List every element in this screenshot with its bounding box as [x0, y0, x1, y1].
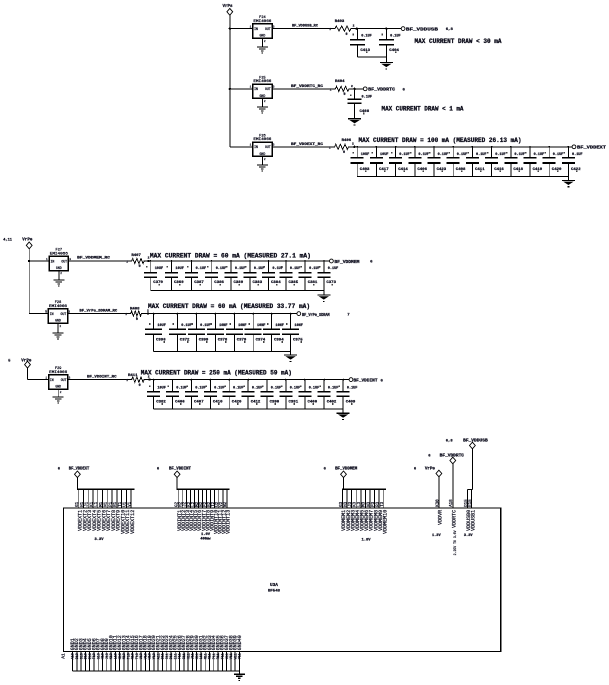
EMI filter F26: [250, 134, 275, 161]
port BF_VDDINT: [349, 378, 353, 382]
pin GND26 (F11): [177, 635, 183, 671]
svg-text:BF_VDDUSB: BF_VDDUSB: [463, 440, 488, 444]
junction: [304, 260, 306, 262]
pin GND35 (R11): [215, 635, 221, 671]
pin VDDEXT11 (U1): [124, 489, 131, 534]
svg-text:A18: A18: [450, 499, 454, 507]
svg-text:10UF: 10UF: [157, 386, 166, 390]
svg-text:0: 0: [346, 33, 348, 37]
ground (F28): [53, 333, 64, 340]
svg-text:P1: P1: [109, 501, 113, 507]
svg-text:C369: C369: [174, 281, 184, 285]
port BF_VDDMEM: [330, 259, 334, 263]
svg-text:C370: C370: [153, 281, 163, 285]
resistor R406: [333, 144, 351, 149]
port BF_VDDUSB (to IC): [446, 440, 488, 449]
wire / bus BF_VDDEXT: [351, 146, 573, 148]
pin VDDEXT7 (N1): [105, 489, 112, 531]
pin GND23 (C11): [164, 635, 170, 671]
svg-text:0.1UF: 0.1UF: [200, 324, 211, 328]
capacitor C420: [543, 147, 559, 177]
svg-text:IN: IN: [50, 378, 54, 382]
pin GND15 (R10): [130, 635, 136, 671]
svg-text:0.1UF: 0.1UF: [214, 386, 225, 390]
pin GND22 (B11): [160, 635, 166, 671]
svg-text:U1: U1: [124, 501, 128, 507]
pin GND21 (A11): [156, 635, 162, 671]
node 2 (R411 out): [148, 375, 150, 378]
svg-text:C382: C382: [156, 401, 166, 405]
port label BF_VDDEXT: [577, 145, 606, 151]
svg-text:BF_VrPe_SDRAM: BF_VrPe_SDRAM: [302, 312, 330, 318]
resistor R407: [130, 258, 146, 263]
junction: [385, 27, 387, 29]
svg-text:VDDUSB1: VDDUSB1: [470, 510, 476, 531]
wire / bus BF_VrPe_SDRAM: [143, 313, 297, 315]
pin GND38 (V11): [228, 635, 234, 671]
junction: [529, 146, 531, 148]
svg-text:H3: H3: [344, 501, 348, 507]
pin VDDEXT10 (T1): [119, 489, 126, 534]
svg-text:0.1UF: 0.1UF: [181, 324, 192, 328]
pin GND1 (A10): [70, 638, 76, 671]
svg-text:0.1UF: 0.1UF: [254, 267, 265, 271]
voltage note 1.3V: [432, 534, 441, 538]
svg-text:3.3V: 3.3V: [94, 538, 104, 542]
junction: [376, 146, 378, 148]
capacitor C416: [485, 147, 501, 177]
svg-text:GND: GND: [55, 319, 61, 323]
svg-text:0.1UF: 0.1UF: [176, 386, 187, 390]
svg-text:V1: V1: [128, 501, 132, 507]
pin VDDMEM8 (P3): [372, 489, 379, 531]
wire to BF_VDDRTC port: [351, 88, 363, 90]
node 2 (R406 out): [352, 143, 354, 146]
pin VDDINT2 (H2): [180, 489, 187, 531]
text MAX CURRENT DRAW = 60 mA (MEASURED 33.77 mA): [148, 303, 310, 310]
svg-text:EMI4066: EMI4066: [50, 252, 68, 256]
junction: [172, 379, 174, 381]
junction: [323, 379, 325, 381]
junction: [191, 379, 193, 381]
svg-text:BF_VDDUSB_RC: BF_VDDUSB_RC: [292, 25, 319, 29]
svg-text:C394: C394: [274, 339, 284, 343]
capacitor C414: [389, 147, 405, 177]
wire (SDRAM cap bottom bus): [154, 351, 291, 353]
svg-text:P3: P3: [372, 501, 376, 507]
net label BF_VDDEXT_RC: [291, 143, 331, 150]
net label BF_VDDINT_RC: [87, 376, 128, 383]
pin GND9 (J10): [104, 638, 110, 671]
capacitor C409: [337, 380, 353, 410]
svg-text:C422: C422: [571, 168, 581, 172]
svg-text:0.1UF: 0.1UF: [476, 153, 487, 157]
svg-text:MAX CURRENT DRAW = 100 mA (MEA: MAX CURRENT DRAW = 100 mA (MEASURED 26.1…: [359, 137, 522, 144]
pin GND39 (W11): [233, 635, 239, 671]
pin GND34 (P11): [211, 635, 217, 671]
wire (to ground): [354, 113, 356, 119]
pin number A1 (left of first GND pin): [61, 653, 67, 659]
pin VDDEXT3 (J1): [86, 489, 93, 531]
svg-text:6,8: 6,8: [446, 28, 454, 32]
svg-text:0.1UF: 0.1UF: [514, 153, 525, 157]
capacitor C390: [261, 380, 277, 410]
svg-text:0: 0: [136, 318, 138, 322]
junction: [153, 313, 155, 315]
svg-text:BF_VDDUSB: BF_VDDUSB: [406, 26, 438, 32]
svg-text:400mw: 400mw: [200, 538, 211, 542]
pin VDDEXT8 (P1): [109, 489, 116, 531]
svg-text:0.1UF: 0.1UF: [418, 153, 429, 157]
svg-text:OUT: OUT: [61, 378, 67, 382]
svg-text:4,11: 4,11: [3, 239, 12, 243]
wire / net BF_VDDINT_RC: [68, 379, 130, 381]
capacitor C419: [524, 147, 540, 177]
junction: [356, 146, 358, 148]
svg-text:C400: C400: [308, 401, 318, 405]
capacitor C407: [185, 380, 201, 410]
svg-text:R407: R407: [131, 254, 141, 258]
svg-text:10NF: 10NF: [257, 324, 266, 328]
pin GND18 (V10): [143, 635, 149, 671]
wire (BF_VDDEXT drop): [76, 478, 78, 490]
svg-text:E15: E15: [469, 499, 473, 507]
junction: [209, 379, 211, 381]
wire (to ground): [290, 352, 292, 355]
wire: [28, 379, 49, 381]
svg-text:W2: W2: [224, 501, 228, 507]
pin GND8 (H10): [100, 638, 106, 671]
capacitor C391: [279, 380, 295, 410]
svg-text:C410: C410: [213, 401, 223, 405]
EMI filter F28: [45, 301, 70, 328]
pin GND28 (H11): [186, 635, 192, 671]
pin VDDRTC (A18): [450, 464, 457, 528]
capacitor C400: [298, 380, 314, 410]
pin VDDEXT5 (L1): [95, 489, 102, 531]
wire (to ground): [567, 177, 569, 181]
ground (F27): [53, 280, 64, 287]
capacitor C373: [317, 261, 333, 291]
svg-text:C412: C412: [251, 401, 261, 405]
capacitor C406: [408, 147, 424, 177]
svg-text:MAX CURRENT DRAW = 60 mA (MEAS: MAX CURRENT DRAW = 60 mA (MEASURED 27.1 …: [150, 253, 311, 260]
junction: [510, 146, 512, 148]
svg-text:0.1UF: 0.1UF: [233, 386, 244, 390]
pin VDDEXT2 (H1): [81, 489, 88, 531]
svg-text:0.1UF: 0.1UF: [534, 153, 545, 157]
svg-text:R406: R406: [342, 139, 352, 143]
EMI filter F25: [250, 76, 275, 103]
svg-text:0.1UF: 0.1UF: [235, 267, 246, 271]
svg-text:0.1UF: 0.1UF: [457, 153, 468, 157]
pin VDDINT3 (J2): [184, 489, 191, 531]
svg-text:C417: C417: [379, 168, 389, 172]
capacitor C420: [223, 380, 239, 410]
pin GND4 (D10): [83, 638, 89, 671]
wire (GND bus): [73, 670, 240, 672]
pin GND3 (C10): [79, 638, 85, 671]
svg-text:VDDEXT12: VDDEXT12: [130, 510, 136, 534]
junction: [249, 260, 251, 262]
svg-text:BF_VDDINT: BF_VDDINT: [169, 468, 192, 472]
svg-text:VrPe: VrPe: [425, 468, 436, 472]
port BF_VDDRTC: [363, 87, 367, 91]
wire (VrPe feed vertical): [27, 368, 29, 380]
svg-text:C378: C378: [218, 339, 228, 343]
pin GND10 (K10): [108, 635, 114, 671]
node 2 (R407 out): [148, 257, 150, 260]
junction: [285, 260, 287, 262]
wire: [230, 88, 253, 90]
svg-text:IN: IN: [51, 259, 55, 263]
junction (feed to F25): [229, 88, 231, 90]
pin GND7 (G10): [96, 638, 102, 671]
pin GND29 (J11): [190, 635, 196, 671]
wire (MEM cap bottom bus): [151, 290, 324, 292]
pin VDDMEM5 (L3): [358, 489, 365, 531]
svg-text:5: 5: [8, 359, 10, 363]
capacitor C378: [207, 314, 227, 352]
junction: [266, 379, 268, 381]
pin 1 mark: [45, 310, 47, 313]
port label BF_VDDINT 6: [354, 378, 384, 384]
wire: [230, 146, 253, 148]
svg-text:MAX CURRENT DRAW = 60 mA (MEAS: MAX CURRENT DRAW = 60 mA (MEASURED 33.77…: [148, 303, 310, 310]
net label BF_VDDUSB_RC: [292, 25, 331, 32]
svg-text:K30: K30: [436, 499, 440, 507]
svg-text:C416: C416: [494, 168, 504, 172]
pin GND14 (P10): [126, 635, 132, 671]
svg-text:C374: C374: [256, 339, 266, 343]
svg-text:C408: C408: [360, 110, 370, 114]
node 2 (R403 out): [353, 25, 355, 28]
wire (to ground): [323, 291, 325, 295]
capacitor C386: [205, 261, 221, 291]
pin GND16 (T10): [134, 635, 140, 671]
ground (F25): [257, 107, 268, 114]
svg-text:BF_VDDEXT: BF_VDDEXT: [69, 468, 90, 472]
svg-text:C383: C383: [253, 281, 263, 285]
svg-text:A1: A1: [61, 653, 67, 659]
wire / net BF_VDDEXT_RC: [272, 146, 333, 148]
svg-text:MAX CURRENT DRAW < 1 mA: MAX CURRENT DRAW < 1 mA: [382, 106, 464, 113]
svg-text:10UF: 10UF: [380, 153, 389, 157]
svg-text:BF548: BF548: [268, 590, 281, 594]
svg-text:0.1UF: 0.1UF: [290, 267, 301, 271]
svg-text:OUT: OUT: [61, 259, 67, 263]
wire / net BF_VrPe_SDRAM_RC: [68, 313, 129, 315]
capacitor C408: [447, 147, 463, 177]
pin GND17 (U10): [138, 635, 144, 671]
svg-text:2.25V TO 3.6V: 2.25V TO 3.6V: [453, 530, 457, 555]
junction: [211, 260, 213, 262]
port BF_VDDRTC (to IC): [428, 454, 464, 463]
svg-text:3.3V: 3.3V: [464, 534, 473, 538]
capacitor C412: [242, 380, 258, 410]
svg-text:VDDMEM10: VDDMEM10: [383, 510, 389, 534]
pin GND31 (L11): [198, 635, 204, 671]
junction: [252, 313, 254, 315]
svg-text:H1: H1: [81, 501, 85, 507]
voltage note 2.25V TO 3.6V: [453, 530, 457, 555]
junction: [304, 379, 306, 381]
svg-text:C409: C409: [346, 401, 356, 405]
capacitor C403: [351, 147, 367, 177]
text MAX CURRENT DRAW = 100 mA (MEASURED 26.13 mA): [359, 137, 522, 144]
capacitor C411: [466, 147, 482, 177]
svg-text:0.1UF: 0.1UF: [290, 386, 301, 390]
svg-text:VDDRTC: VDDRTC: [452, 510, 458, 528]
pin GND12 (M10): [117, 635, 123, 671]
svg-text:0.1UF: 0.1UF: [399, 153, 410, 157]
pin GND36 (T11): [220, 635, 226, 671]
wire (INT cap bottom bus): [154, 408, 344, 410]
wire / net BF_VDDUSB_RC: [272, 28, 333, 30]
net label BF_VDDRTC_RC: [291, 85, 332, 92]
svg-text:C414: C414: [398, 168, 408, 172]
svg-text:0.1UF: 0.1UF: [553, 153, 564, 157]
svg-text:C387: C387: [194, 281, 204, 285]
pin VDDINT1 (G2): [176, 489, 183, 531]
junction: [342, 379, 344, 381]
svg-text:0.1UF: 0.1UF: [361, 35, 372, 39]
junction: [353, 88, 355, 90]
svg-text:N3: N3: [367, 501, 371, 507]
capacitor C408: [348, 89, 365, 115]
svg-text:L1: L1: [95, 501, 99, 507]
svg-text:R3: R3: [377, 501, 381, 507]
junction (feed to F24): [229, 27, 231, 29]
capacitor C382: [147, 380, 163, 410]
svg-text:J1: J1: [86, 501, 90, 507]
text MAX CURRENT DRAW < 30 mA: [415, 38, 502, 45]
svg-text:0.1UF: 0.1UF: [390, 35, 401, 39]
pin VDDINT12 (V2): [220, 489, 227, 534]
pin VDDUSB0 (D15): [465, 490, 472, 531]
pin GND37 (U11): [224, 635, 230, 671]
svg-text:T1: T1: [119, 501, 123, 507]
pin VDDMEM6 (M3): [363, 489, 370, 531]
svg-text:C408: C408: [456, 168, 466, 172]
node 2 (R404 out): [351, 85, 353, 88]
junction: [414, 146, 416, 148]
svg-text:R404: R404: [335, 80, 345, 84]
junction: [323, 260, 325, 262]
svg-text:BF_VDDEXT: BF_VDDEXT: [577, 145, 606, 151]
resistor R404: [333, 86, 351, 91]
junction (feed to F27): [28, 260, 30, 262]
capacitor C385: [279, 261, 295, 291]
svg-text:0.1UF: 0.1UF: [328, 386, 339, 390]
pin GND5 (E10): [87, 638, 93, 671]
svg-text:0.1UF: 0.1UF: [195, 386, 206, 390]
svg-text:BF_VDDEXT_RC: BF_VDDEXT_RC: [291, 143, 324, 147]
port VrPe (to IC pin VDDVR): [414, 467, 442, 476]
capacitor C396: [145, 314, 165, 352]
pin GND25 (E11): [173, 635, 179, 671]
svg-text:R403: R403: [335, 20, 345, 24]
port label BF_VrPe_SDRAM 7: [302, 312, 350, 318]
pin VDDMEM4 (K3): [354, 489, 361, 531]
junction: [147, 260, 149, 262]
svg-text:10UF: 10UF: [175, 267, 184, 271]
svg-text:C403: C403: [360, 168, 370, 172]
port BF_VDDUSB: [401, 27, 405, 31]
svg-text:0.1UF: 0.1UF: [309, 386, 320, 390]
svg-text:C385: C385: [289, 281, 299, 285]
junction: [153, 379, 155, 381]
svg-text:2: 2: [353, 25, 355, 28]
capacitor C418: [504, 147, 520, 177]
pin GND40 (Y11): [237, 635, 243, 671]
svg-text:MAX CURRENT DRAW = 250 mA (MEA: MAX CURRENT DRAW = 250 mA (MEASURED 59 m…: [141, 369, 292, 376]
voltage note 3.3V: [464, 534, 473, 538]
svg-text:C399: C399: [199, 339, 209, 343]
svg-text:EMI4066: EMI4066: [253, 20, 271, 24]
capacitor C404: [379, 29, 397, 57]
wire (F27 gnd): [58, 271, 60, 281]
pin VDDEXT9 (R1): [114, 489, 121, 531]
pin VDDUSB1 (E15): [469, 490, 476, 531]
wire (VrPe feed vertical): [28, 249, 30, 314]
power port VrPs (top feed): [222, 5, 233, 15]
voltage note 1.8V: [361, 538, 371, 542]
svg-text:IN: IN: [254, 145, 258, 149]
svg-text:C375: C375: [293, 339, 303, 343]
pin GND24 (D11): [168, 635, 174, 671]
ground (F29): [53, 397, 64, 404]
svg-text:G1: G1: [76, 501, 80, 507]
svg-text:OUT: OUT: [61, 312, 67, 316]
pin GND33 (N11): [207, 635, 213, 671]
capacitor C413: [350, 29, 368, 57]
svg-text:GND40: GND40: [237, 635, 243, 650]
pin GND32 (M11): [203, 635, 209, 671]
junction: [228, 379, 230, 381]
svg-text:R1: R1: [114, 501, 118, 507]
wire (VrPs feed vertical): [229, 15, 231, 147]
pin VDDINT9 (R2): [208, 489, 215, 531]
junction: [150, 260, 152, 262]
svg-text:0.1UF: 0.1UF: [252, 386, 263, 390]
EMI filter F29: [45, 367, 70, 394]
capacitor C417: [370, 147, 386, 177]
capacitor C402: [318, 380, 334, 410]
ground (F26): [257, 165, 268, 172]
wire / net BF_VDDRTC_RC: [272, 88, 333, 90]
text MAX CURRENT DRAW = 250 mA (MEASURED 59 mA): [141, 369, 292, 376]
pin GND6 (F10): [91, 638, 97, 671]
port BF_VDDINT (to IC): [157, 468, 192, 478]
ground (EXT bank): [562, 180, 575, 187]
pin VDDEXT1 (G1): [76, 489, 83, 531]
resistor R411: [130, 377, 146, 382]
svg-text:R408: R408: [130, 307, 140, 311]
svg-text:Y11: Y11: [239, 653, 243, 659]
svg-text:0.1UF: 0.1UF: [438, 153, 449, 157]
svg-text:C396: C396: [156, 339, 166, 343]
pin VDDINT10 (T2): [212, 489, 219, 534]
svg-text:K3: K3: [354, 501, 358, 507]
svg-text:EMI4066: EMI4066: [253, 138, 271, 142]
svg-text:EMI4066: EMI4066: [253, 80, 271, 84]
svg-text:GND: GND: [260, 34, 266, 38]
svg-text:C423: C423: [437, 168, 447, 172]
text MAX CURRENT DRAW < 1 mA: [382, 106, 464, 113]
svg-text:0: 0: [139, 384, 141, 388]
svg-text:M3: M3: [363, 501, 367, 507]
